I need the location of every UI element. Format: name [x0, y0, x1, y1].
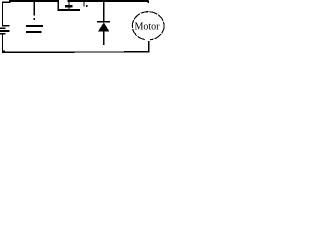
- motor M1 circle: [132, 12, 164, 40]
- wire battery top lead: [1, 2, 3, 25]
- wire battery bottom lead: [1, 34, 3, 52]
- wire top rail right: [68, 0, 149, 2]
- battery B2 short thick plate (+): [65, 5, 73, 7]
- battery B1 plate short: [0, 28, 6, 29]
- wire top rail from battery: [2, 1, 11, 3]
- node dot above capacitor C1: [34, 18, 35, 20]
- diode D1 triangle: [98, 22, 109, 31]
- diode D1 cathode bar: [97, 21, 110, 23]
- wire stub down: [83, 0, 85, 6]
- node dot: [86, 5, 88, 7]
- wire bottom rail: [2, 51, 150, 53]
- wire diode D1 bottom lead: [103, 31, 105, 45]
- wire diode D1 top lead: [103, 0, 105, 22]
- junction blob bottom-left corner: [2, 50, 5, 52]
- battery B1 plate short bottom: [0, 33, 6, 35]
- wire corner into motor: [147, 0, 149, 3]
- battery B1 plate long top: [2, 25, 10, 27]
- battery B2 long plate (lower line): [58, 9, 80, 11]
- capacitor C1 plate top: [26, 25, 43, 27]
- svg-text:Motor: Motor: [135, 21, 161, 32]
- battery B2 centre stub: [68, 1, 70, 10]
- scan break at motor circle bottom: [145, 39, 150, 41]
- battery B1 plate long: [0, 30, 10, 32]
- wire vertical drop at switch left: [57, 0, 59, 10]
- wire capacitor C1 top lead: [33, 2, 35, 16]
- capacitor C1 plate bottom: [26, 31, 41, 33]
- wire motor bottom lead: [148, 41, 150, 53]
